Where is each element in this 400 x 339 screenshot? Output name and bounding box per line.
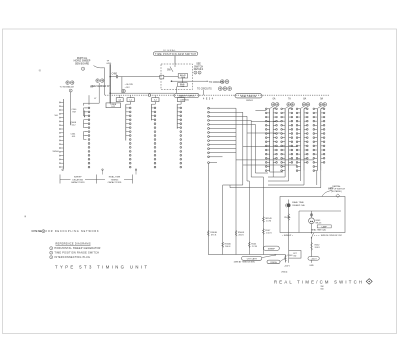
oval label SW560 TIMING SWITCH: [174, 93, 199, 97]
svg-text:7A: 7A: [288, 98, 291, 101]
box REAL TIME: [178, 83, 188, 87]
real time timing capacitors column 3: [180, 102, 182, 105]
potentiometer R561: [287, 203, 291, 207]
inner partition of detail box: [298, 211, 300, 233]
svg-text:INTERCONNECTING PLUG: INTERCONNECTING PLUG: [54, 256, 90, 259]
circled ref 1: [194, 71, 197, 74]
real time cm ladder contact column: [208, 107, 210, 109]
svg-text:CAPACITORS: CAPACITORS: [108, 181, 122, 184]
svg-text:R561A: R561A: [284, 216, 291, 219]
svg-text:47: 47: [94, 98, 96, 100]
svg-text:HORIZONTAL SWEEP GENERATOR: HORIZONTAL SWEEP GENERATOR: [54, 247, 100, 250]
svg-text:1.50 K: 1.50 K: [266, 233, 273, 235]
resistor R549: [262, 217, 264, 223]
svg-text:1: 1: [51, 248, 52, 250]
svg-text:NE-23: NE-23: [316, 223, 323, 225]
svg-text:SW560: SW560: [182, 100, 190, 102]
svg-text:SW561: SW561: [246, 100, 254, 102]
bracket sweep delay capacitors: [59, 175, 61, 184]
wire inside dashed box between component boxes: [182, 78, 184, 83]
svg-text:4 E 5 4: 4 E 5 4: [203, 99, 214, 101]
connector rungs between buses and wafers: [255, 109, 266, 111]
svg-text:REAL TIME: REAL TIME: [292, 201, 304, 204]
real time timing capacitors column 1: [130, 102, 132, 105]
svg-text:CRT CATH: CRT CATH: [247, 257, 257, 260]
dashed box switch detail SW490: [161, 64, 193, 90]
svg-text:GND: GND: [309, 265, 314, 267]
circled ref 1 below note: [81, 67, 84, 70]
wire down from to-signal ref: [70, 92, 72, 124]
wafer bottom drops and collectors: [269, 171, 271, 172]
svg-text:+ DIV: + DIV: [125, 87, 131, 89]
circled ref 2: [198, 71, 201, 74]
leader curve to partial switch note: [322, 191, 332, 197]
ref 2 time position range switch: [50, 251, 53, 254]
svg-text:SWEEP CAL: SWEEP CAL: [292, 204, 306, 207]
wire branch down to contact ref: [121, 77, 123, 94]
svg-text:3-4: 3-4: [154, 100, 157, 102]
svg-text:8A: 8A: [303, 98, 306, 101]
svg-text:SWEEP TIMING: SWEEP TIMING: [178, 95, 194, 97]
oval label REAL TIME CM SWITCH on line: [235, 94, 262, 98]
column top terminal boxes: [116, 98, 123, 102]
stray mark left margin: [25, 216, 26, 218]
svg-text:NOTE: SEE: NOTE: SEE: [32, 230, 43, 233]
wire vertical time marker input: [104, 68, 106, 95]
svg-text:TIME POSITION ARM SWITCH: TIME POSITION ARM SWITCH: [155, 53, 196, 56]
svg-text:375 K: 375 K: [211, 234, 217, 236]
diamond ref after title: [366, 279, 372, 285]
svg-text:1.5 M: 1.5 M: [266, 221, 271, 223]
svg-text:500 K: 500 K: [225, 246, 231, 248]
svg-text:S I G N A L: S I G N A L: [163, 49, 176, 52]
svg-text:REAL TIME CAL: REAL TIME CAL: [311, 229, 327, 232]
resistor R561A: [288, 214, 290, 221]
oval label sweep cal pickoff: [264, 246, 280, 250]
svg-text:0A: 0A: [273, 98, 276, 101]
svg-text:(ROTATED): (ROTATED): [331, 190, 342, 193]
leader arrows from ovals: [262, 255, 276, 258]
junction dot C490: [109, 76, 111, 78]
neon lamp B563: [311, 211, 313, 218]
svg-text:2: 2: [51, 253, 52, 255]
svg-text:2.2 M: 2.2 M: [252, 246, 257, 248]
note SWB IS OPEN IN CM: [314, 234, 320, 236]
contact ref on branch: [122, 89, 126, 93]
contact refs time marker: [96, 79, 100, 83]
trimmer arrow below C540 group: [84, 111, 86, 117]
svg-text:R561A: R561A: [270, 261, 277, 264]
svg-text:5-6: 5-6: [180, 100, 183, 102]
resistor R547: [262, 229, 264, 235]
bottom contact wafer 1: [62, 169, 64, 171]
bus vertical 3: [246, 116, 248, 181]
svg-text:2: 2: [199, 73, 200, 75]
detail box real time sweep cal: [280, 197, 345, 233]
box C480 terminal: [106, 103, 121, 108]
svg-text:TIME POSITION RANGE SWITCH: TIME POSITION RANGE SWITCH: [54, 252, 99, 255]
wire from time marker refs down to capacitor bank: [98, 83, 100, 103]
stub wires from coupling line to column boxes: [119, 95, 121, 98]
wire lamp down: [311, 224, 313, 233]
svg-text:3: 3: [51, 257, 52, 259]
wire SWB down: [311, 238, 313, 256]
lone wiper contact of ladder: [208, 162, 210, 164]
bus vertical 5: [254, 124, 256, 173]
svg-text:SWEEP: SWEEP: [268, 248, 276, 250]
svg-text:LAMP: LAMP: [322, 225, 328, 228]
svg-text:REAL-TIME: REAL-TIME: [109, 176, 121, 179]
svg-text:CAPACITORS: CAPACITORS: [71, 181, 85, 184]
svg-text:560: 560: [320, 288, 323, 290]
arrow wire TO CIRCUIT upper: [172, 80, 209, 82]
svg-text:DETAILS: DETAILS: [194, 68, 204, 71]
wire from lower note down to coupling line: [203, 90, 205, 95]
svg-text:(SEE AT TIME/CM SW): (SEE AT TIME/CM SW): [234, 261, 255, 264]
box TIME POSITION ARM SWITCH: [153, 52, 198, 56]
ladder drop wire: [208, 164, 210, 255]
bus vertical 2: [242, 112, 244, 185]
small contact box inside dashed box: [160, 75, 164, 79]
svg-text:TO CIRCUITS: TO CIRCUITS: [197, 89, 212, 91]
switch SWB: [311, 232, 312, 233]
svg-text:1-2: 1-2: [129, 100, 132, 102]
oval label R561A pickoff: [267, 260, 280, 264]
svg-text:+ SWEEP +: + SWEEP +: [282, 235, 294, 237]
resistor R560F: [235, 230, 237, 236]
wire pot down: [288, 200, 290, 251]
svg-text:TIME: TIME: [181, 77, 186, 79]
resistor R560B: [207, 230, 209, 236]
svg-text:(R561): (R561): [282, 272, 288, 274]
svg-text:GEN BOARD: GEN BOARD: [75, 62, 90, 65]
svg-text:8: 8: [43, 231, 44, 233]
resistor R545: [248, 242, 250, 248]
oval label R562 100K: [308, 257, 319, 261]
bracket real time timing capacitors: [132, 175, 134, 184]
real time timing capacitors column 2: [154, 102, 156, 105]
box DELAY TIME: [178, 74, 187, 78]
wire bus to switch label oval: [110, 92, 174, 94]
wire inside dashed box to DELAY TIME: [164, 76, 178, 78]
oval label CRT cathode: [242, 256, 262, 260]
svg-text:3-4: 3-4: [118, 100, 121, 102]
svg-text:1: 1: [195, 73, 196, 75]
ref 1 horizontal sweep generator: [50, 247, 53, 250]
resistor R562: [311, 242, 313, 250]
resistor R560D: [222, 242, 224, 248]
svg-text:REAL TIME/CM: REAL TIME/CM: [241, 95, 257, 98]
svg-text:200 K: 200 K: [238, 234, 244, 236]
wire dashed box bottom to coupling line: [176, 87, 178, 94]
diamond ref under note: [336, 194, 340, 198]
svg-text:9A: 9A: [320, 98, 323, 101]
svg-text:200 K: 200 K: [315, 247, 321, 249]
circuit board box: [289, 251, 301, 259]
coupling ref circle on line: [148, 94, 151, 97]
svg-text:FOR DECOUPLING NETWORK: FOR DECOUPLING NETWORK: [46, 230, 99, 233]
svg-text:+100 V: +100 V: [311, 258, 318, 260]
sweep delay capacitors contact column: [88, 107, 90, 109]
bus vertical 4: [250, 120, 252, 177]
svg-text:SWB IS OPEN IN 'CM': SWB IS OPEN IN 'CM': [321, 235, 343, 237]
boxed label lamp: [317, 225, 331, 228]
wire from switch box down to dashed detail box: [174, 56, 176, 64]
svg-text:3-12: 3-12: [111, 106, 115, 108]
svg-text:④: ④: [39, 69, 42, 73]
contact refs to signal left: [66, 81, 70, 85]
svg-text:TIME: TIME: [180, 86, 185, 88]
resistor at collector right end: [284, 255, 286, 263]
bus vertical 1: [235, 108, 237, 254]
wiper terminal circles above bracket labels: [102, 169, 103, 170]
svg-text:-150 V: -150 V: [284, 266, 291, 268]
svg-text:REFERENCE DIAGRAMS: REFERENCE DIAGRAMS: [56, 243, 91, 246]
left switch wafer bracket SW560-1: [63, 99, 65, 169]
svg-text:TO SIGNAL AT: TO SIGNAL AT: [60, 85, 75, 88]
collector wire bottom: [208, 254, 285, 256]
svg-text:DELAYING: DELAYING: [72, 178, 83, 181]
wire main vertical C490 node: [109, 64, 111, 103]
svg-text:5W560: 5W560: [53, 151, 60, 153]
ref 3 interconnecting plug: [50, 256, 53, 259]
circled ref 4: [69, 89, 72, 92]
mechanical coupling dashed line: [105, 94, 330, 96]
leader curve from note to C490 node: [94, 66, 105, 68]
